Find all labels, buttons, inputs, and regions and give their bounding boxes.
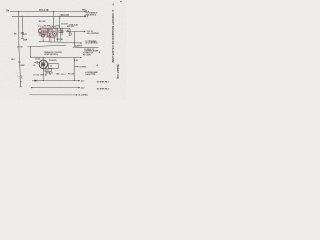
label 100K bottom left <box>20 65 25 67</box>
svg-text:R6: R6 <box>14 34 16 36</box>
tick on cap wire <box>20 81 22 83</box>
mark apostrophe mid <box>112 61 113 64</box>
caption vertical main <box>111 10 115 63</box>
label stray 4 <box>97 64 99 67</box>
resistor R18 small box <box>61 30 63 32</box>
wire Q3 emitter to line A <box>42 69 44 81</box>
wire line A <box>32 80 78 82</box>
svg-text:VOL CONTROL: VOL CONTROL <box>87 33 99 35</box>
junction mid link <box>49 37 50 38</box>
wire top rail 1 <box>10 10 85 12</box>
junction x62 top <box>62 28 63 29</box>
wire lower bus left segment <box>28 45 66 47</box>
wire vertical into cluster from rail1 <box>53 11 55 28</box>
svg-text:C9: C9 <box>33 65 35 67</box>
wire q2 bottom to bus <box>53 36 55 42</box>
svg-text:100K: 100K <box>23 39 28 41</box>
resistor R17 small box <box>59 30 61 32</box>
arrow line A end <box>78 80 80 82</box>
wire vertical from rail2 left <box>21 16 23 38</box>
wire cluster top link <box>40 27 61 29</box>
svg-text:J2-1: J2-1 <box>81 81 85 83</box>
label R14 220 <box>49 59 56 62</box>
capacitor C11 box <box>45 69 52 72</box>
junction q1 base <box>41 33 42 34</box>
label R6 left of column <box>14 34 16 36</box>
label 4.7K right mid-low <box>74 59 79 62</box>
wire vertical right low <box>73 58 75 81</box>
label -4 <box>99 51 102 54</box>
arrow output mid <box>81 42 83 44</box>
resistor R16 small box <box>69 33 71 35</box>
svg-text:R13 10: R13 10 <box>68 73 74 75</box>
svg-text:4.7K: 4.7K <box>23 33 28 36</box>
svg-text:J2-2: J2-2 <box>81 88 85 90</box>
label 4.7K on rail1 <box>39 9 49 12</box>
junction rail1/cluster vert <box>53 11 54 12</box>
svg-text:R14 220: R14 220 <box>49 59 56 62</box>
label under cluster right <box>57 39 64 41</box>
wire r3 bottom to bus <box>49 33 51 42</box>
label C11 below <box>45 70 53 74</box>
highlight mush tint 1 <box>39 28 47 36</box>
svg-text:5V: 5V <box>6 9 9 13</box>
junction vert/arrowline <box>74 42 75 43</box>
svg-text:R12 1K: R12 1K <box>41 74 48 76</box>
label line A connector <box>81 81 109 84</box>
junction rail2/vert <box>22 16 23 17</box>
label row above cluster right <box>61 23 79 28</box>
wire cap to ground <box>19 78 21 87</box>
capacitor C2 on left column <box>21 33 24 34</box>
svg-text:C8 .1: C8 .1 <box>61 74 66 76</box>
highlight red loop 1 <box>39 28 47 37</box>
label under feed left <box>35 58 40 60</box>
svg-text:4.7K: 4.7K <box>74 59 79 62</box>
wire top rail 2 <box>12 15 84 17</box>
svg-text:OF J1 (NOTE 2): OF J1 (NOTE 2) <box>85 43 98 45</box>
wire q1 left drop <box>40 32 42 34</box>
wire vertical right mid <box>74 32 76 48</box>
svg-text:470PF (NOTE 3): 470PF (NOTE 3) <box>44 53 58 56</box>
svg-text:C3 .05: C3 .05 <box>17 47 23 49</box>
capacitor C6 small <box>56 28 58 41</box>
capacitor C4 network <box>42 34 45 36</box>
svg-text:TO PIN 9: TO PIN 9 <box>79 66 86 68</box>
label C9 value <box>33 65 35 67</box>
transistor Q1 <box>42 30 46 34</box>
wire line B <box>32 87 79 89</box>
wire vertical from rail1 left <box>18 11 20 47</box>
svg-text:CR2: CR2 <box>56 74 60 76</box>
svg-text:(SEE NOTE 2): (SEE NOTE 2) <box>86 14 97 16</box>
wire stub to pin9 <box>74 66 77 68</box>
label rail1 end top <box>82 9 87 11</box>
wire vertical x70 <box>69 28 71 33</box>
label row above cluster <box>38 25 61 28</box>
transistor Q2 <box>52 31 56 35</box>
svg-text:J2-3 (GND): J2-3 (GND) <box>78 95 88 97</box>
wire line C <box>30 94 76 96</box>
svg-text:TP1 4.7K: TP1 4.7K <box>39 9 49 12</box>
ground blob <box>20 86 22 88</box>
junction rail1/vert <box>18 11 19 12</box>
resistor R1 box <box>39 28 41 32</box>
note block right mid <box>84 48 99 53</box>
note block right low <box>85 71 98 76</box>
wire bottom cluster feed <box>31 56 81 58</box>
node line B start <box>31 87 32 88</box>
svg-text:R11 1K: R11 1K <box>57 39 64 41</box>
svg-text:OUTPUT: OUTPUT <box>75 45 83 47</box>
label R7 100K <box>23 39 28 41</box>
svg-text:P3 CONN: P3 CONN <box>83 55 91 57</box>
label C3 .05 <box>17 47 23 49</box>
wire vertical into cluster from rail2 <box>59 16 61 28</box>
wire from cluster to output arrow top <box>66 31 84 33</box>
label left of Q3 column <box>11 59 15 61</box>
wire left vertical lower run <box>19 47 20 76</box>
mark apostrophe top <box>112 3 114 7</box>
capacitor C12 polarized bottom left <box>17 75 22 78</box>
caption vertical sheet <box>116 64 119 79</box>
svg-text:T2: T2 <box>49 74 51 76</box>
label R9 on rail2 <box>61 14 70 17</box>
arrow line B end <box>78 87 80 89</box>
svg-text:R9 4.7K: R9 4.7K <box>61 14 70 17</box>
junction long bus / left vert <box>18 47 19 48</box>
svg-text:TO SPKR P4-1: TO SPKR P4-1 <box>97 81 109 84</box>
svg-text:1N914 TYPE: 1N914 TYPE <box>85 73 96 76</box>
label R8 10K <box>39 21 46 23</box>
svg-text:C9 22: C9 22 <box>35 58 40 60</box>
wire between stages <box>46 28 48 37</box>
junction A <box>43 80 44 81</box>
wire vertical into bottom cluster <box>30 47 32 57</box>
arrow line C end <box>76 94 78 96</box>
transformer T1 box <box>48 64 59 69</box>
wire cluster mid link <box>46 36 55 38</box>
tick on left vertical <box>18 61 21 63</box>
svg-text:10.5: 10.5 <box>11 59 15 61</box>
highlight mush tint 2 <box>48 28 58 38</box>
highlight red loop 2 <box>47 27 57 37</box>
label to pin 9 <box>79 66 86 68</box>
svg-text:4. CIRCUIT DIAGRAM OF CS-905 A: 4. CIRCUIT DIAGRAM OF CS-905 AMP <box>111 10 115 63</box>
wire cluster right vertical <box>60 28 62 42</box>
wire cluster to C5 <box>61 27 70 29</box>
diode CR1 on line A <box>35 80 38 82</box>
dot top right <box>120 1 121 2</box>
label line C connector <box>78 95 88 97</box>
label output mid <box>85 40 98 45</box>
note block top right <box>86 12 99 17</box>
node 5V supply label <box>6 9 9 13</box>
wire lower bus right segment <box>73 46 99 48</box>
svg-text:R8 10K: R8 10K <box>39 21 46 23</box>
wire vertical x62 <box>61 28 63 35</box>
capacitor C9 bars <box>34 61 39 63</box>
label row above line A <box>33 73 74 76</box>
note replace block <box>44 51 62 56</box>
terminal rail 2 end <box>84 16 85 17</box>
label rail2 end <box>84 16 88 18</box>
node tick end of left column vert2 <box>21 37 24 39</box>
arrow output top <box>84 31 86 33</box>
wire bus below cluster to output arrow <box>39 42 81 44</box>
highlight red streak <box>50 39 53 44</box>
junction rail2/cluster vert <box>59 16 60 17</box>
arrow pin9 <box>77 66 79 67</box>
arrow bottom feed end <box>80 57 82 59</box>
capacitor C10 blob <box>49 35 51 37</box>
transistor Q3 <box>39 57 47 68</box>
label 4.7K left column <box>23 33 28 36</box>
svg-text:100K: 100K <box>20 65 25 67</box>
label output above lower bus <box>75 45 83 47</box>
svg-text:R15 100: R15 100 <box>67 26 74 28</box>
svg-text:TO SPKR P4-2: TO SPKR P4-2 <box>97 87 109 90</box>
label above feed end <box>83 53 93 57</box>
terminal rail 1 end <box>85 11 86 12</box>
label line B connector <box>81 87 109 90</box>
wire q1 right link <box>46 31 49 33</box>
junction A2 <box>74 80 75 81</box>
wire blob2 bottom to bus <box>42 37 44 42</box>
capacitor C5 polarized <box>65 30 68 32</box>
label rail1 end right <box>85 10 90 13</box>
junction between stages <box>47 32 48 33</box>
svg-text:C7 .05: C7 .05 <box>33 75 39 77</box>
junction q1 emitter <box>44 34 45 35</box>
label output top <box>87 31 99 35</box>
label q1 tiny <box>39 33 41 35</box>
svg-text:(SHEET 2/2): (SHEET 2/2) <box>116 64 119 79</box>
resistor R3 box <box>48 29 52 33</box>
